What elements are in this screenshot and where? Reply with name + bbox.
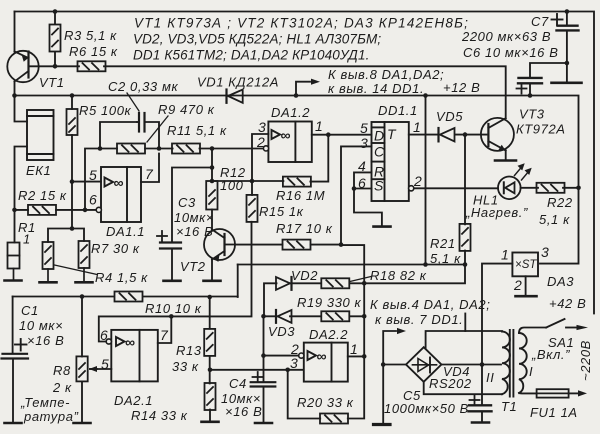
ground R4 — [40, 281, 57, 283]
svg-text:1: 1 — [315, 118, 323, 134]
arrow mains bottom — [578, 390, 587, 396]
svg-text:VT2: VT2 — [180, 259, 206, 274]
opamp DA1.2 — [268, 122, 311, 163]
opamp DA2.1 — [111, 330, 158, 382]
node DA2.2 output — [362, 354, 367, 359]
wire C2 loop left — [100, 122, 137, 149]
node R13 bottom / R14 — [208, 368, 213, 373]
svg-text:5,1 к: 5,1 к — [430, 251, 461, 266]
switch SA1 — [546, 319, 564, 328]
wire R1 bottom — [13, 269, 15, 281]
wire R18 row to VD2 — [264, 283, 364, 316]
node common / bridge left — [381, 362, 386, 367]
node VT1 collector / +12 rail — [12, 93, 17, 98]
svg-text:R10 10 к: R10 10 к — [145, 301, 202, 316]
svg-text:С7: С7 — [531, 14, 549, 29]
wire DA1.2 pin3 down to R15 top — [212, 134, 283, 195]
resistor R9 470k — [117, 144, 145, 154]
wire R9/R11 row to DA1.2 pin2 — [100, 148, 263, 150]
callout line R4 label — [55, 265, 98, 275]
wire VD1 arrow branch up — [296, 82, 310, 96]
ground VT2 emitter — [204, 280, 221, 282]
svg-text:R18 82 к: R18 82 к — [370, 268, 427, 283]
node VT3 collector rail crossing none; C6-C7 gnd node — [565, 61, 570, 66]
svg-text:R21: R21 — [430, 236, 456, 251]
arrow to +12V pins — [311, 79, 320, 85]
node R19 right — [362, 314, 367, 319]
wire winding I bottom to FU1 — [519, 392, 537, 394]
wire DA3 pin2 to ground — [525, 276, 527, 296]
svg-text:КТ972А: КТ972А — [516, 122, 566, 137]
wire R10 row — [13, 296, 238, 298]
diode VD3 KD522A — [276, 310, 292, 323]
transistor VT3 KT972A npn — [481, 118, 514, 151]
ground DA3 pin2 — [516, 295, 537, 298]
wire DA1.1 pin5 — [72, 181, 101, 183]
diode VD2 KD522A — [276, 277, 292, 290]
node R22 right rail — [576, 186, 581, 191]
svg-text:S: S — [374, 178, 384, 194]
node R9 right / R11 / pin7 — [157, 146, 162, 151]
svg-text:VD5: VD5 — [436, 109, 463, 124]
output circle DD1.1 pin2 — [409, 186, 414, 191]
capacitor C2 0,33mk — [137, 113, 145, 132]
svg-text:VD3: VD3 — [268, 324, 295, 339]
wire VT1 collector down to +12 node — [15, 82, 28, 122]
svg-text:6: 6 — [89, 192, 97, 208]
svg-text:D: D — [374, 128, 384, 144]
inversion circle DA1.1 pin6 — [96, 207, 101, 212]
svg-text:DA1.2: DA1.2 — [271, 105, 310, 120]
wire fuse to mains arrow — [569, 392, 578, 394]
node +12 drop — [423, 93, 428, 98]
wire R9 feedback down to pin6 — [85, 149, 100, 210]
node VD2/VD3 left — [261, 314, 266, 319]
svg-text:VD2, VD3,VD5 КД522А; HL1 А: VD2, VD3,VD5 КД522А; HL1 АЛ307БМ; — [133, 32, 381, 47]
node DA2.2 pin2 / C4 — [261, 353, 266, 358]
wire DA2.1 feedback loop pin7 riser to output node and to pin6 — [99, 316, 172, 343]
wire bridge bottom AC from winding II bottom — [424, 382, 502, 394]
resistor R21 5,1k — [460, 224, 471, 251]
svg-text:К выв.8 DA1,DA2;: К выв.8 DA1,DA2; — [328, 67, 444, 82]
svg-text:2: 2 — [256, 134, 265, 150]
svg-text:×16 В: ×16 В — [225, 404, 262, 419]
svg-text:R22: R22 — [547, 195, 573, 210]
plus sign C7 — [552, 14, 563, 25]
svg-text:×ST: ×ST — [515, 259, 537, 271]
wire VD5 to VT3 base — [455, 134, 487, 136]
plus sign C1 — [15, 339, 27, 351]
resistor R13 33k — [204, 329, 215, 356]
svg-text:5: 5 — [89, 167, 97, 183]
svg-text:VT1: VT1 — [39, 75, 65, 90]
resistor R4 1,5k — [43, 242, 54, 269]
svg-text:+42 В: +42 В — [549, 296, 586, 311]
wire R2 row to DA1.1 pin6 — [15, 209, 97, 211]
svg-text:C: C — [374, 144, 385, 160]
svg-text:∞: ∞ — [114, 175, 124, 191]
wire C6 from gnd node — [530, 63, 567, 96]
svg-text:FU1 1А: FU1 1А — [530, 405, 578, 420]
regulator DA3 KR142EN8B — [512, 253, 538, 277]
wire DA2.2 pin2 — [264, 355, 303, 357]
callout line C2 label — [127, 93, 139, 111]
opamp DA1.1 — [101, 167, 141, 222]
svg-text:1: 1 — [23, 232, 31, 247]
svg-text:+12 В: +12 В — [443, 80, 480, 95]
heater EK1 — [27, 110, 54, 160]
node C7 top — [565, 9, 570, 14]
svg-text:R20 33 к: R20 33 к — [297, 395, 354, 410]
capacitor C4 10mk x16V — [251, 382, 276, 386]
diode VD1 KD212A — [227, 90, 243, 103]
resistor R16 1M — [283, 177, 311, 187]
potentiometer R8 2k with wiper arrow — [76, 356, 87, 381]
transistor VT1 KT973A pnp — [7, 51, 38, 82]
resistor R7 30k — [79, 241, 90, 268]
svg-text:DD1 К561ТМ2; DA1,DA2 КР104: DD1 К561ТМ2; DA1,DA2 КР1040УД1. — [133, 48, 370, 63]
wire winding I top to SA1 — [519, 328, 546, 334]
ground C3 — [164, 280, 181, 282]
wire R13 column — [209, 297, 211, 422]
callout line R9 label — [147, 116, 168, 142]
node R9 left / C2 — [98, 146, 103, 151]
wire C5 leads — [481, 365, 483, 423]
svg-text:5,1 к: 5,1 к — [539, 212, 570, 227]
ground C1 — [5, 422, 22, 424]
capacitor C6 10mk x16V — [518, 78, 542, 83]
svg-text:С1: С1 — [21, 303, 39, 318]
wire R4 bottom — [47, 269, 49, 282]
resistor R1 1 (with middle bar) — [8, 243, 20, 269]
svg-text:I: I — [529, 364, 533, 379]
wire R12 to VT2 collector — [211, 210, 213, 230]
svg-text:R19 330 к: R19 330 к — [297, 295, 362, 310]
svg-text:10 мк×: 10 мк× — [19, 318, 63, 333]
wire DA3 pin1 down to bridge+ tap node — [482, 264, 512, 365]
wire DD1.1 pin1 to VD5 — [409, 134, 438, 136]
svg-text:DA2.2: DA2.2 — [309, 327, 348, 342]
svg-text:R9 470 к: R9 470 к — [158, 102, 215, 117]
node center tap / DA3 pin1 / C5 — [480, 362, 485, 367]
wire +12 feed row y264.5 — [238, 264, 465, 266]
svg-text:R13: R13 — [176, 343, 202, 358]
svg-text:С3: С3 — [178, 195, 196, 210]
svg-text:II: II — [486, 370, 494, 385]
svg-text:2: 2 — [513, 277, 522, 293]
svg-text:„Вкл.”: „Вкл.” — [531, 347, 570, 362]
node R4/R7 row — [70, 226, 75, 231]
resistor R17 10k — [283, 240, 311, 250]
node R15 top / pin3 — [250, 179, 255, 184]
svg-text:VD1 КД212А: VD1 КД212А — [197, 75, 279, 90]
wire +12 drop from rail to row — [425, 96, 427, 265]
capacitor C5 1000mk x50V — [469, 405, 492, 411]
svg-text:5: 5 — [360, 120, 368, 136]
transistor VT2 KT3102A npn — [204, 229, 235, 260]
node R13 top — [207, 295, 212, 300]
svg-text:2 к: 2 к — [52, 380, 72, 395]
svg-text:к выв. 7 DD1.: к выв. 7 DD1. — [375, 312, 463, 327]
wire R4/R7 top row — [48, 229, 84, 243]
svg-text:4: 4 — [358, 158, 366, 174]
svg-text:6: 6 — [100, 327, 108, 343]
bridge rectifier VD4 RS202 — [406, 347, 441, 382]
node R2 / feedback / pin6 — [83, 208, 88, 213]
inversion circle DA2.2 pin2 — [299, 353, 304, 358]
wire R5 leads and down to DA1.1 pin5 then R4/R7 row — [71, 96, 73, 229]
ground R7 — [76, 281, 93, 283]
transformer winding I — [519, 333, 527, 393]
resistor R11 5,1k — [172, 144, 200, 154]
node DA2.1 output riser — [169, 314, 174, 319]
svg-text:К выв.4 DA1, DA2;: К выв.4 DA1, DA2; — [370, 297, 490, 312]
inversion circle DA2.1 pin6 — [106, 339, 111, 344]
svg-text:R11 5,1 к: R11 5,1 к — [167, 123, 227, 138]
svg-text:R16 1М: R16 1М — [276, 188, 325, 203]
svg-text:R3 5,1 к: R3 5,1 к — [64, 28, 117, 43]
svg-text:~220В: ~220В — [578, 340, 593, 381]
wire DA2.1 pin5 from R8 wiper — [90, 368, 111, 370]
led HL1 AL307BM — [498, 177, 521, 200]
svg-text:DA3: DA3 — [547, 274, 574, 289]
capacitor C1 10mk x16V — [2, 354, 29, 359]
resistor R19 330k — [321, 311, 349, 321]
svg-text:100: 100 — [220, 178, 244, 193]
svg-text:1000мк×50 В: 1000мк×50 В — [384, 401, 469, 416]
wire R16 right up to pin1 — [310, 135, 328, 182]
wire C3 bottom to ground — [171, 249, 173, 281]
wire DD1.1 pin5 from DA1.2 pin1 — [312, 134, 372, 136]
node VT1 base / R3 — [53, 64, 58, 69]
node VD5 / R21 top — [463, 132, 468, 137]
wire R15 bottom long run to DA2.1 output node — [171, 222, 251, 317]
node R20 / pin3 — [285, 368, 290, 373]
ground R1 — [5, 280, 22, 282]
svg-text:×16 В: ×16 В — [27, 333, 64, 348]
svg-text:R2 15 к: R2 15 к — [18, 188, 67, 203]
svg-text:DA1.1: DA1.1 — [106, 224, 145, 239]
node R17 / DD1 pin3 — [339, 242, 344, 247]
wire row drop to R10 row — [237, 265, 239, 298]
resistor R5 100k — [67, 109, 78, 135]
wire VT1 base to R6 — [30, 65, 80, 67]
transformer winding II — [502, 332, 510, 395]
svg-text:VT3: VT3 — [519, 107, 545, 122]
callout line R18 label — [350, 277, 371, 282]
resistor R2 15k — [28, 205, 56, 215]
svg-text:Т1: Т1 — [501, 399, 517, 414]
svg-text:T: T — [387, 126, 397, 142]
svg-text:2: 2 — [413, 173, 422, 189]
svg-text:R4 1,5 к: R4 1,5 к — [95, 270, 148, 285]
resistor R6 15k — [78, 61, 106, 71]
arrow mains top — [577, 325, 589, 330]
svg-text:RS202: RS202 — [429, 376, 472, 391]
diode VD5 KD522A — [439, 128, 455, 141]
svg-text:1: 1 — [413, 119, 421, 135]
wire HL1 to R22 to +12 right rail — [521, 187, 579, 189]
node R18 right — [362, 281, 367, 286]
wire VD3 row — [264, 315, 364, 317]
svg-text:5: 5 — [101, 356, 109, 372]
wire left edge: top corner down into VT1 emitter — [14, 12, 16, 52]
svg-text:∞: ∞ — [281, 127, 291, 143]
svg-text:33 к: 33 к — [172, 359, 199, 374]
wire R3 leads — [54, 12, 56, 67]
opamp DA2.2 — [304, 343, 348, 382]
wire DD1.1 pin2 to HL1 — [413, 187, 498, 189]
wire SA1 to mains arrow — [566, 327, 578, 329]
fuse FU1 1A — [537, 389, 569, 397]
svg-text:ратура”: ратура” — [23, 409, 79, 424]
wire C1 branch — [12, 297, 14, 354]
wire DA1.1 pin7 up to R9 right — [141, 154, 159, 183]
svg-text:С4: С4 — [229, 376, 247, 391]
resistor R3 5,1k — [50, 25, 61, 52]
ground C5 — [472, 422, 489, 424]
plus sign C5 — [470, 395, 480, 405]
node C6 / rail — [528, 93, 533, 98]
resistor R10 10k — [115, 292, 143, 302]
plus sign C6 — [517, 84, 527, 94]
wire top +42V rail and right edge down to +42 row — [15, 12, 595, 314]
capacitor C3 10mk x16V polarized — [160, 243, 181, 249]
svg-text:DA2.1: DA2.1 — [114, 393, 153, 408]
svg-text:R15 1к: R15 1к — [259, 204, 304, 219]
ground R8 — [74, 422, 91, 424]
svg-text:ЕК1: ЕК1 — [26, 163, 51, 178]
wire DD1.1 pin4 and pin6 tie to ground — [354, 172, 382, 226]
svg-text:R7 30 к: R7 30 к — [91, 241, 140, 256]
wire VD2/VD3 node down to DA2.2 pin2 and C4 — [263, 316, 265, 382]
resistor R15 1k — [247, 195, 258, 222]
ground C4 — [255, 422, 272, 424]
wire R13/R14 node row to DA2.2 pin3 — [210, 369, 303, 371]
svg-text:R8: R8 — [53, 363, 71, 378]
svg-text:„Нагрев.”: „Нагрев.” — [465, 205, 528, 220]
wire node R17 junction right and down main comparator column — [341, 245, 364, 356]
ground VT3 emitter — [495, 159, 516, 162]
node DA1.1 pin5 / R5 — [70, 179, 75, 184]
wire +42 row from bridge branch — [464, 314, 466, 332]
wire bridge top AC from winding II top — [426, 331, 502, 348]
node +12 drop to row — [423, 262, 428, 267]
svg-text:R6 15 к: R6 15 к — [69, 44, 118, 59]
ground C7/C6 — [552, 82, 582, 85]
svg-text:„Темпе-: „Темпе- — [20, 395, 70, 410]
ground common bottom — [374, 423, 391, 426]
wire VT2 base to R17 — [236, 244, 283, 246]
svg-text:VT1 КТ973А ; VT2 КТ3102А;: VT1 КТ973А ; VT2 КТ3102А; DA3 КР142ЕН8Б; — [134, 16, 469, 31]
resistor R14 33k — [205, 383, 216, 410]
wire C1 bottom to ground — [12, 359, 14, 424]
svg-text:С2 0,33 мк: С2 0,33 мк — [108, 79, 178, 94]
svg-text:к выв. 14 DD1.: к выв. 14 DD1. — [328, 81, 424, 96]
ground R14 — [202, 421, 219, 423]
node DD1 pin4/pin6 tie — [352, 186, 357, 191]
plus sign C3 — [157, 231, 167, 241]
wire R11 junction down to R12, C3 branch — [172, 149, 212, 243]
svg-text:3: 3 — [360, 135, 368, 151]
flip-flop DD1.1 K561TM2 — [372, 122, 409, 201]
node R21 bottom row — [463, 262, 468, 267]
transformer T1 core — [510, 330, 514, 397]
resistor R18 82k — [321, 278, 349, 288]
svg-text:1: 1 — [350, 341, 358, 357]
wire DD1.1 pin3 C input — [341, 146, 372, 244]
wire VT2 emitter to ground — [211, 260, 213, 281]
resistor R12 100 — [206, 181, 217, 210]
svg-text:VD2: VD2 — [291, 268, 318, 283]
svg-text:2200 мк×63 В: 2200 мк×63 В — [461, 29, 551, 44]
wire C4 bottom to ground — [263, 387, 265, 424]
svg-text:10мк×: 10мк× — [174, 210, 214, 225]
wire VT3 emitter to ground — [505, 151, 507, 161]
svg-text:∞: ∞ — [125, 334, 135, 350]
node R11 right / R12 — [210, 146, 215, 151]
wire R8 column — [81, 297, 83, 424]
node R2 left — [12, 208, 17, 213]
wire DA2.2 output to column and R20 loop — [288, 356, 365, 418]
svg-text:R17 10 к: R17 10 к — [276, 221, 333, 236]
node VD1 / arrow branch — [294, 93, 299, 98]
svg-text:3: 3 — [290, 355, 298, 371]
capacitor C7 2200mk x63V — [557, 26, 579, 31]
wire bridge right to winding center tap — [441, 364, 501, 366]
wire R21 column: VD5 node down through R21 to R18 row — [364, 135, 465, 284]
svg-text:1: 1 — [501, 247, 509, 263]
wire C7 leads and gnd — [566, 12, 568, 83]
svg-text:6: 6 — [358, 175, 366, 191]
node R12 top row — [210, 179, 215, 184]
node R5 top — [70, 93, 75, 98]
svg-text:×16 В: ×16 В — [176, 224, 213, 239]
svg-text:R14 33 к: R14 33 к — [131, 408, 188, 423]
wire R7 bottom — [83, 268, 85, 282]
wire EK1 bottom stub and left column down to R1 — [15, 147, 28, 243]
arrow to pins 4/7 — [397, 328, 406, 334]
plus sign C4 — [253, 372, 264, 382]
wire R6 right long run to VT3 collector drop — [104, 66, 506, 118]
svg-text:7: 7 — [145, 166, 154, 182]
wire R17 right to DD1 pin3 junction — [311, 244, 341, 246]
resistor R20 33k — [320, 414, 348, 424]
svg-text:3: 3 — [258, 119, 266, 135]
resistor R22 5,1k — [537, 183, 565, 193]
svg-text:∞: ∞ — [317, 348, 327, 364]
node R3 top — [53, 9, 58, 14]
wire bridge left to common, arrow branch — [383, 331, 406, 424]
svg-text:3: 3 — [541, 244, 549, 260]
node C3 branch — [210, 165, 215, 170]
node DA1.2 pin1 / R16 — [326, 132, 331, 137]
inversion circle DA1.2 pin2 — [263, 146, 268, 151]
svg-text:С6 10 мк×16 В: С6 10 мк×16 В — [463, 45, 559, 60]
wire +12V rail y96 full width, right corner down to DA3 pin3 — [15, 96, 579, 264]
led arrows HL1 — [515, 165, 531, 181]
svg-text:7: 7 — [160, 327, 169, 343]
ground DD1 R/S — [374, 226, 391, 228]
svg-text:R5 100к: R5 100к — [79, 103, 132, 118]
node R8 top — [80, 294, 85, 299]
svg-text:DD1.1: DD1.1 — [378, 103, 418, 118]
wire C2 loop right — [146, 122, 160, 149]
